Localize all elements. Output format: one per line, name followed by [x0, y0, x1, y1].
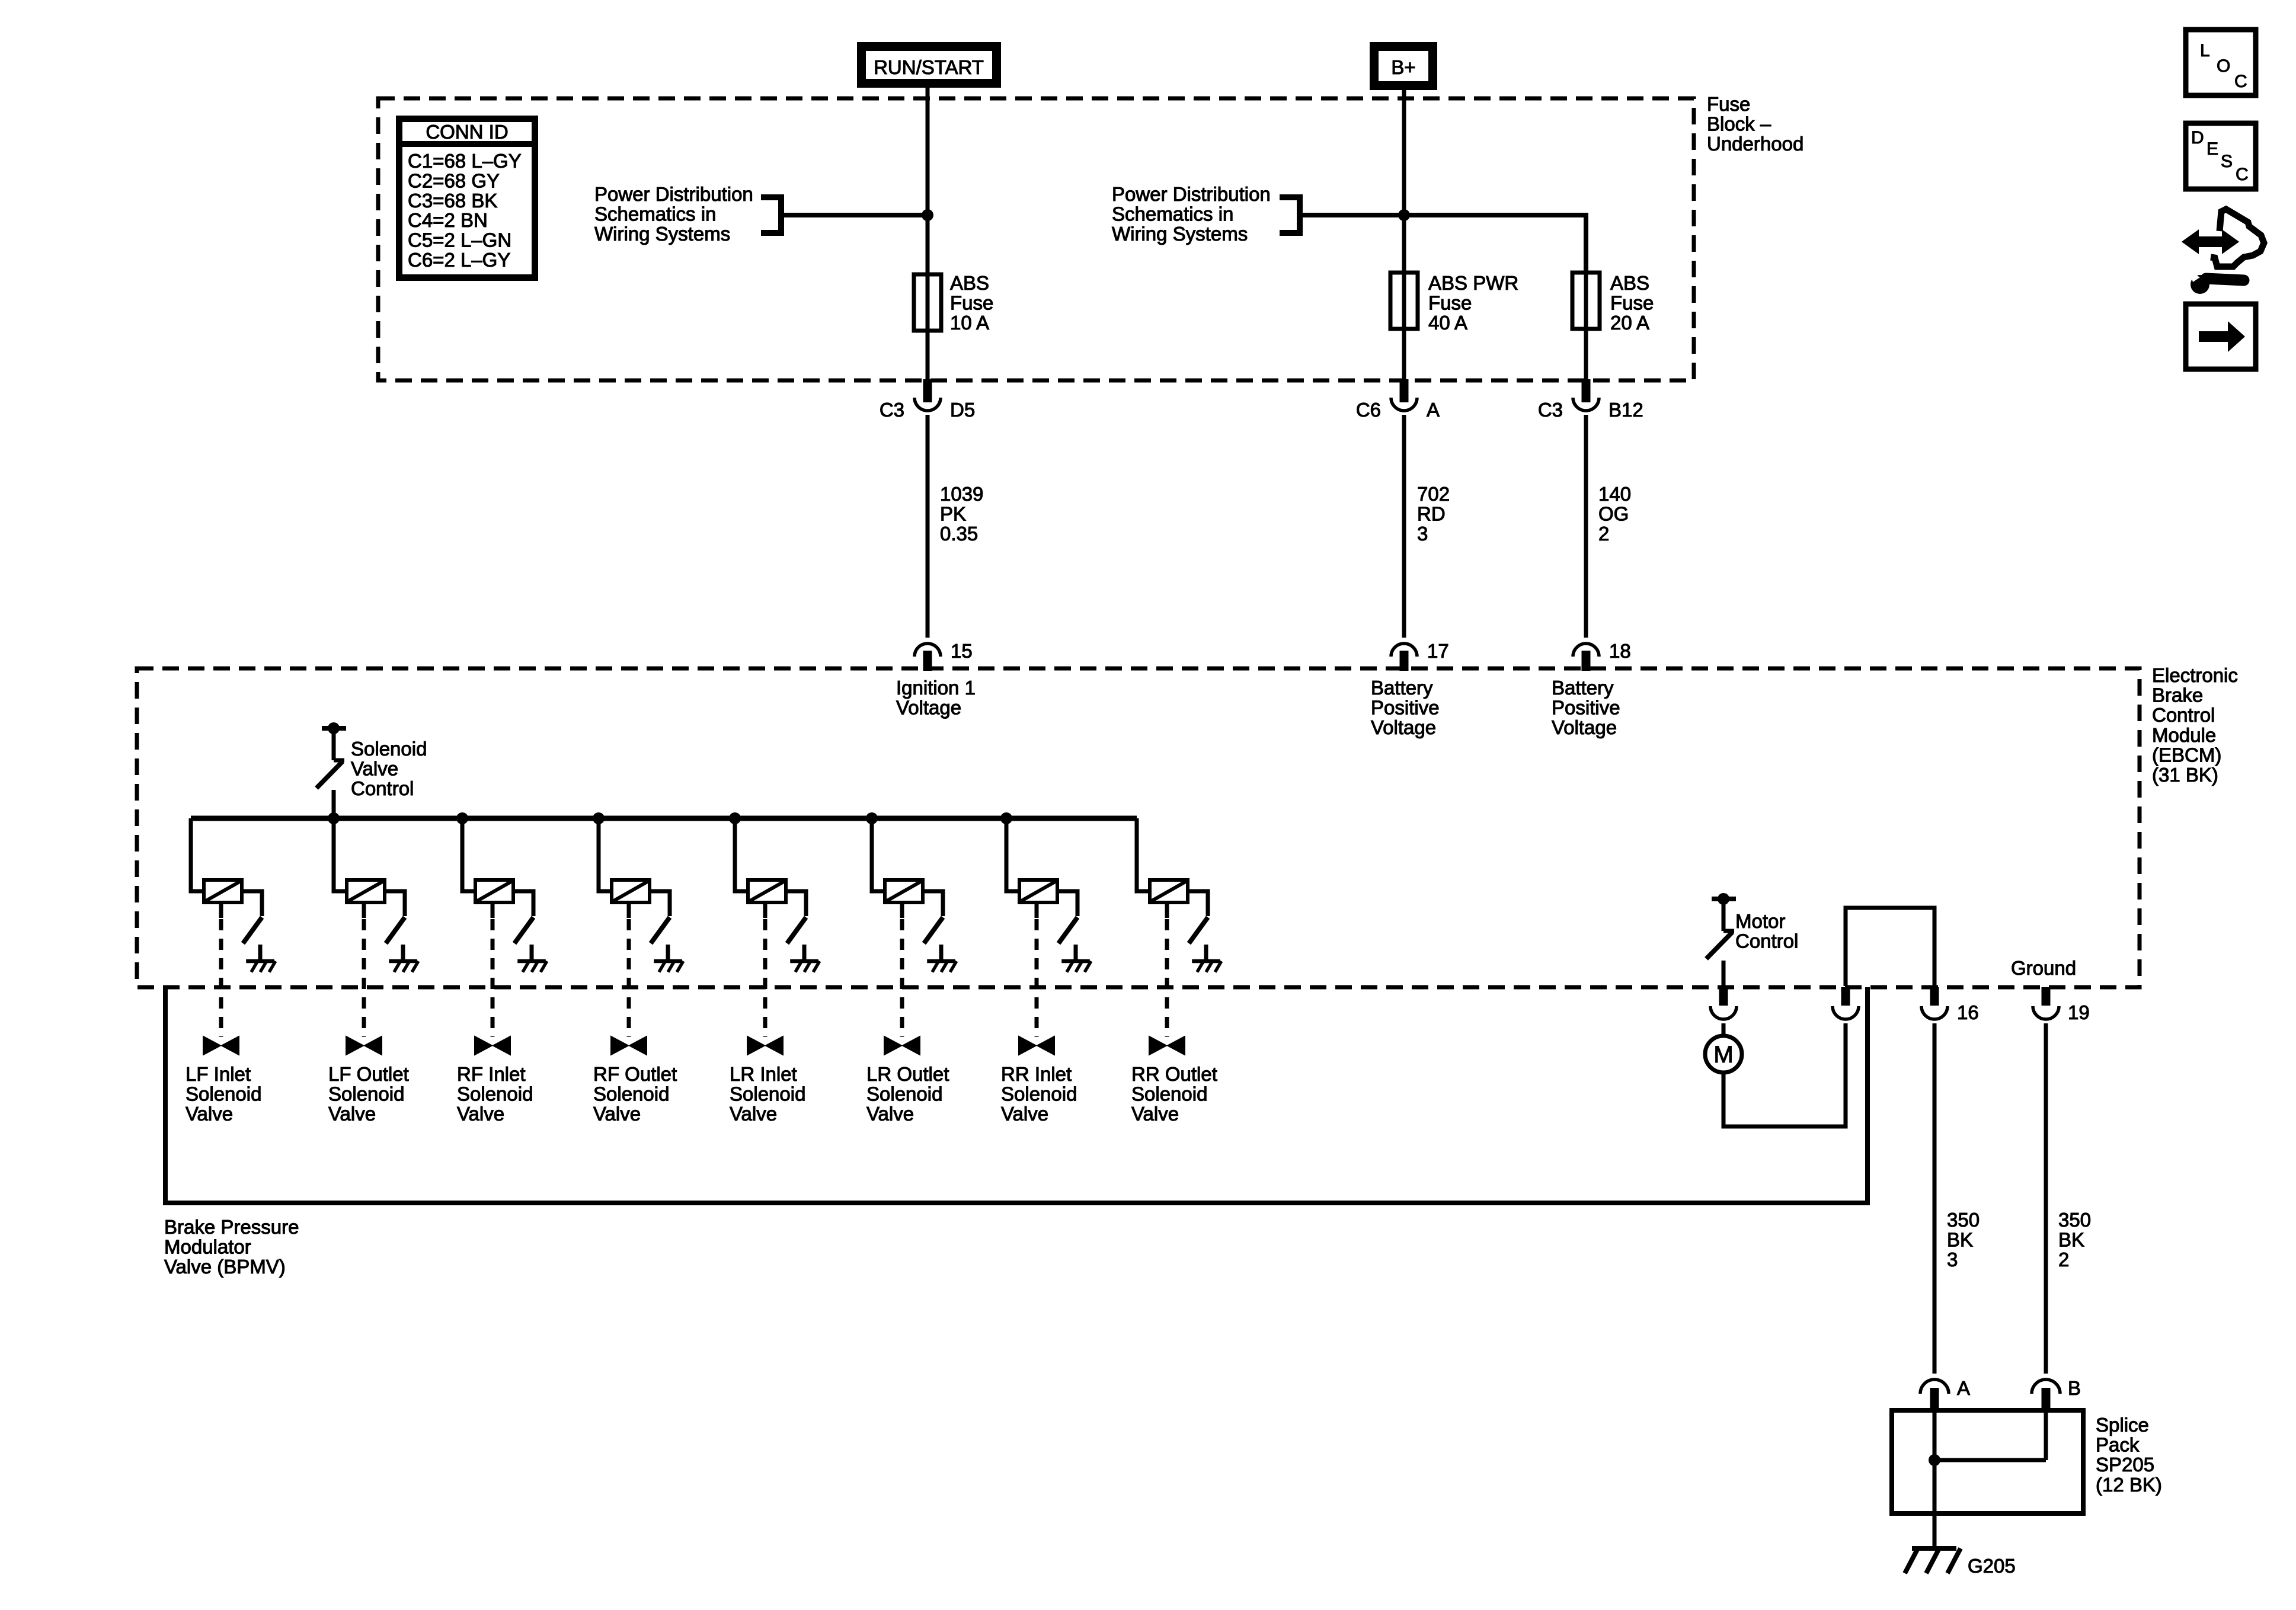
wire: BPMV case return	[1865, 987, 1870, 1203]
wire: branch from solenoid bus at x=1471	[872, 818, 885, 891]
svg-text:Solenoid: Solenoid	[351, 738, 427, 760]
svg-text:Solenoid: Solenoid	[1131, 1083, 1207, 1105]
svg-text:SP205: SP205	[2096, 1454, 2154, 1475]
svg-text:18: 18	[1609, 640, 1631, 662]
svg-text:140: 140	[1598, 483, 1631, 505]
connector pin 17 (EBCM input)	[1391, 644, 1417, 657]
svg-text:B12: B12	[1609, 399, 1643, 421]
svg-text:Control: Control	[2152, 704, 2215, 726]
wire 350 BK 2	[2044, 1023, 2048, 1374]
svg-text:Solenoid: Solenoid	[457, 1083, 533, 1105]
svg-text:PK: PK	[940, 503, 966, 525]
svg-text:C2=68 GY: C2=68 GY	[408, 169, 500, 191]
svg-text:ABS: ABS	[1610, 272, 1649, 294]
wire: coil output to contact	[385, 891, 405, 916]
svg-text:B+: B+	[1391, 56, 1415, 78]
connector pin 15 (EBCM input)	[914, 644, 941, 657]
wire: branch from solenoid bus at x=1010	[599, 818, 612, 891]
wire: coil pin dashed to valve	[763, 902, 768, 918]
svg-text:CONN ID: CONN ID	[426, 121, 508, 143]
wire: coil pin dashed to valve	[219, 902, 223, 918]
node junction on bus at x=1010	[593, 812, 605, 824]
wire: ground pin	[1204, 945, 1208, 961]
svg-text:Valve: Valve	[1001, 1103, 1048, 1125]
wire: ground pin	[666, 945, 670, 961]
wire 140 OG 2	[1584, 415, 1588, 638]
svg-text:C3: C3	[1538, 399, 1563, 421]
wire: coil output to contact	[1057, 891, 1077, 916]
valve symbol LR Outlet Solenoid Valve	[884, 1036, 920, 1055]
Brake Pressure Modulator Valve (BPMV) outline	[165, 987, 1868, 1203]
wire: 10A fuse to block edge	[926, 331, 930, 380]
icon DESC box	[2186, 123, 2256, 189]
svg-text:Schematics in: Schematics in	[1112, 203, 1233, 225]
svg-text:Ground: Ground	[2011, 957, 2076, 979]
wire: bracket across B+ feed to 20A fuse	[1300, 215, 1586, 273]
svg-text:Solenoid: Solenoid	[1001, 1083, 1077, 1105]
switch blade (driver contact)	[243, 917, 262, 943]
svg-text:Brake Pressure: Brake Pressure	[164, 1216, 299, 1238]
svg-text:C: C	[2234, 72, 2247, 91]
svg-text:350: 350	[2058, 1209, 2091, 1231]
svg-text:Underhood: Underhood	[1707, 133, 1803, 155]
CONN ID table	[399, 119, 535, 278]
ground (chassis) for LF Inlet driver	[246, 959, 274, 963]
wire: ground pin	[802, 945, 807, 961]
svg-text:2: 2	[2058, 1249, 2069, 1270]
svg-text:O: O	[2217, 56, 2230, 76]
wire: coil output to contact	[242, 891, 262, 916]
valve symbol RR Outlet Solenoid Valve	[1149, 1036, 1185, 1055]
fuse ABS Fuse 10 A	[914, 274, 941, 331]
switch Motor Control	[1712, 897, 1736, 901]
svg-text:C3=68 BK: C3=68 BK	[408, 190, 497, 212]
svg-text:C1=68 L–GY: C1=68 L–GY	[408, 150, 522, 172]
wire: branch from solenoid bus at x=563	[334, 818, 347, 891]
svg-text:A: A	[1427, 399, 1440, 421]
wire: coil output to contact	[650, 891, 670, 916]
svg-text:D5: D5	[950, 399, 975, 421]
svg-text:BK: BK	[2058, 1229, 2084, 1251]
svg-text:1039: 1039	[940, 483, 983, 505]
svg-text:Solenoid: Solenoid	[866, 1083, 942, 1105]
relay coil RR Inlet driver	[1019, 880, 1057, 902]
wire: branch from solenoid bus at x=780	[462, 818, 475, 891]
svg-text:(31 BK): (31 BK)	[2152, 764, 2218, 786]
svg-text:Block –: Block –	[1707, 113, 1771, 135]
connector C6 pin A (fuse block exit)	[1400, 379, 1409, 402]
node junction on bus at x=780	[456, 812, 468, 824]
wire: ground pin	[1074, 945, 1078, 961]
svg-text:C6=2 L–GY: C6=2 L–GY	[408, 249, 510, 271]
wire: branch from solenoid bus at x=1240	[735, 818, 748, 891]
svg-text:C: C	[2236, 165, 2249, 184]
svg-text:Fuse: Fuse	[1707, 93, 1750, 115]
svg-text:19: 19	[2068, 1001, 2090, 1023]
svg-text:Valve: Valve	[328, 1103, 376, 1125]
svg-text:Fuse: Fuse	[950, 292, 993, 314]
ground (chassis) for RR Inlet driver	[1061, 959, 1090, 963]
svg-text:Brake: Brake	[2152, 684, 2203, 706]
svg-text:20 A: 20 A	[1610, 312, 1649, 334]
wire: coil output to contact	[923, 891, 943, 916]
svg-text:RR Outlet: RR Outlet	[1131, 1063, 1217, 1085]
ground G205 (chassis)	[1912, 1546, 1956, 1551]
wire: coil pin dashed to valve	[900, 902, 904, 918]
splice pack SP205 box	[1892, 1410, 2083, 1513]
wire: internal link motor return to pin 16	[1846, 908, 1934, 986]
connector pin A (splice pack)	[1920, 1379, 1949, 1394]
ground (chassis) for LR Inlet driver	[790, 959, 818, 963]
svg-text:Solenoid: Solenoid	[593, 1083, 669, 1105]
svg-text:Fuse: Fuse	[1610, 292, 1654, 314]
wire: splice A through pack	[1933, 1408, 1937, 1548]
switch blade (driver contact)	[924, 917, 943, 943]
connector C3 pin B12 (fuse block exit)	[1582, 379, 1591, 402]
svg-text:Valve: Valve	[866, 1103, 914, 1125]
svg-text:Control: Control	[351, 777, 414, 799]
svg-text:E: E	[2207, 139, 2218, 159]
wire: ground pin	[258, 945, 263, 961]
ground (chassis) for RF Inlet driver	[517, 959, 546, 963]
svg-text:S: S	[2221, 152, 2233, 171]
svg-text:3: 3	[1417, 523, 1428, 545]
svg-text:Solenoid: Solenoid	[730, 1083, 805, 1105]
svg-text:Control: Control	[1735, 930, 1798, 952]
wire: RUN/START down to ABS fuse	[926, 88, 930, 274]
svg-text:Valve (BPMV): Valve (BPMV)	[164, 1256, 286, 1278]
wire: branch from solenoid bus at x=1918	[1137, 818, 1150, 891]
svg-text:Schematics in: Schematics in	[594, 203, 716, 225]
svg-text:RD: RD	[1417, 503, 1446, 525]
svg-text:C3: C3	[880, 399, 904, 421]
valve symbol LF Inlet Solenoid Valve	[203, 1036, 239, 1055]
relay coil LR Inlet driver	[748, 880, 786, 902]
svg-text:LR Outlet: LR Outlet	[866, 1063, 949, 1085]
svg-text:LF Inlet: LF Inlet	[186, 1063, 251, 1085]
svg-text:M: M	[1713, 1042, 1733, 1068]
ground (chassis) for LR Outlet driver	[927, 959, 955, 963]
node junction on bus at x=563	[328, 812, 340, 824]
wire: coil output to contact	[786, 891, 806, 916]
svg-text:Battery: Battery	[1371, 677, 1433, 699]
node junction on bus at x=1240	[729, 812, 741, 824]
Electronic Brake Control Module (EBCM) dashed enclosure	[137, 668, 2140, 987]
svg-text:15: 15	[951, 640, 973, 662]
node junction on bus at x=1698	[1000, 812, 1012, 824]
switch blade (driver contact)	[1189, 917, 1208, 943]
svg-text:ABS PWR: ABS PWR	[1428, 272, 1518, 294]
wire: coil output to contact	[1188, 891, 1208, 916]
svg-text:702: 702	[1417, 483, 1450, 505]
svg-text:L: L	[2200, 41, 2210, 60]
svg-text:Valve: Valve	[351, 758, 398, 780]
svg-text:Power Distribution: Power Distribution	[594, 183, 753, 205]
wire: solenoid driver bus	[191, 816, 1137, 821]
svg-text:Module: Module	[2152, 724, 2216, 746]
wire: 40A fuse to block edge	[1402, 329, 1406, 380]
fuse block underhood (dashed enclosure)	[378, 98, 1694, 380]
svg-text:Valve: Valve	[593, 1103, 641, 1125]
svg-text:OG: OG	[1598, 503, 1629, 525]
connector (motor return through EBCM case)	[1833, 1006, 1859, 1019]
node junction on B+ wire	[1398, 209, 1410, 221]
svg-text:RUN/START: RUN/START	[874, 56, 984, 78]
wire: branch from solenoid bus at x=322	[191, 818, 204, 891]
wire: coil pin dashed to valve	[491, 902, 495, 918]
icon vehicle direction + wrench	[2211, 209, 2264, 267]
svg-text:Voltage: Voltage	[1552, 716, 1617, 738]
svg-text:16: 16	[1957, 1001, 1979, 1023]
svg-text:Valve: Valve	[186, 1103, 233, 1125]
relay coil RF Inlet driver	[475, 880, 513, 902]
svg-text:B: B	[2068, 1377, 2081, 1399]
wire: motor return loop	[1723, 1023, 1846, 1126]
svg-text:G205: G205	[1968, 1555, 2016, 1577]
wire: coil pin dashed to valve	[362, 902, 366, 918]
connector (motor feed through EBCM case)	[1719, 987, 1728, 1006]
wire: coil output to contact	[513, 891, 533, 916]
icon LOC box	[2186, 30, 2256, 95]
valve symbol LR Inlet Solenoid Valve	[747, 1036, 783, 1055]
svg-text:Solenoid: Solenoid	[328, 1083, 404, 1105]
valve symbol LF Outlet Solenoid Valve	[346, 1036, 382, 1055]
svg-text:(EBCM): (EBCM)	[2152, 744, 2221, 766]
svg-text:A: A	[1957, 1377, 1970, 1399]
svg-text:RF Outlet: RF Outlet	[593, 1063, 677, 1085]
node splice junction	[1929, 1454, 1940, 1466]
connector C3 pin D5 (fuse block exit)	[923, 379, 932, 402]
icon next-section arrow box	[2186, 304, 2256, 369]
ground (chassis) for LF Outlet driver	[389, 959, 417, 963]
switch blade (driver contact)	[1059, 917, 1077, 943]
relay coil LF Inlet driver	[204, 880, 242, 902]
switch blade (driver contact)	[787, 917, 806, 943]
svg-text:Valve: Valve	[730, 1103, 777, 1125]
relay coil RR Outlet driver	[1150, 880, 1188, 902]
wire 350 BK 3	[1933, 1023, 1937, 1374]
svg-text:Electronic: Electronic	[2152, 664, 2238, 686]
switch blade (driver contact)	[651, 917, 670, 943]
svg-text:Power Distribution: Power Distribution	[1112, 183, 1271, 205]
svg-text:Splice: Splice	[2096, 1414, 2149, 1436]
svg-text:C4=2 BN: C4=2 BN	[408, 209, 488, 231]
svg-text:BK: BK	[1947, 1229, 1973, 1251]
valve symbol RF Inlet Solenoid Valve	[475, 1036, 510, 1055]
svg-text:RF Inlet: RF Inlet	[457, 1063, 526, 1085]
wire: 20A fuse to block edge	[1584, 329, 1588, 380]
switch Solenoid Valve Control	[322, 726, 346, 731]
svg-text:LR Inlet: LR Inlet	[730, 1063, 797, 1085]
wire: coil pin dashed to valve	[1035, 902, 1039, 918]
valve symbol RR Inlet Solenoid Valve	[1019, 1036, 1054, 1055]
connector pin B (splice pack)	[2032, 1379, 2060, 1394]
svg-text:Pack: Pack	[2096, 1434, 2140, 1456]
bracket symbol (left)	[761, 197, 781, 233]
svg-text:17: 17	[1427, 640, 1449, 662]
svg-text:Valve: Valve	[457, 1103, 504, 1125]
ground (chassis) for RF Outlet driver	[654, 959, 682, 963]
svg-text:ABS: ABS	[950, 272, 989, 294]
svg-text:Positive: Positive	[1371, 697, 1440, 719]
svg-text:Voltage: Voltage	[1371, 716, 1436, 738]
wire: splice link to B	[1934, 1458, 2046, 1462]
switch blade (driver contact)	[514, 917, 533, 943]
svg-text:Ignition 1: Ignition 1	[896, 677, 976, 699]
svg-text:Wiring Systems: Wiring Systems	[1112, 223, 1248, 245]
motor M (pump motor)	[1722, 1023, 1726, 1035]
svg-text:(12 BK): (12 BK)	[2096, 1474, 2162, 1496]
switch blade (driver contact)	[386, 917, 405, 943]
node junction on bus at x=1471	[866, 812, 878, 824]
relay coil LF Outlet driver	[347, 880, 385, 902]
svg-text:3: 3	[1947, 1249, 1958, 1270]
svg-text:0.35: 0.35	[940, 523, 978, 545]
wire: branch from solenoid bus at x=1698	[1006, 818, 1019, 891]
node junction on RUN/START wire	[922, 209, 933, 221]
svg-text:LF Outlet: LF Outlet	[328, 1063, 409, 1085]
svg-text:RR Inlet: RR Inlet	[1001, 1063, 1072, 1085]
relay coil LR Outlet driver	[885, 880, 923, 902]
svg-text:Wiring Systems: Wiring Systems	[594, 223, 730, 245]
wire: ground pin	[401, 945, 405, 961]
wire 702 RD 3	[1402, 415, 1406, 638]
valve symbol RF Outlet Solenoid Valve	[611, 1036, 647, 1055]
svg-text:40 A: 40 A	[1428, 312, 1467, 334]
svg-text:Modulator: Modulator	[164, 1236, 251, 1258]
wire: B+ down to ABS PWR fuse	[1402, 89, 1406, 273]
svg-text:Fuse: Fuse	[1428, 292, 1472, 314]
fuse ABS Fuse 20 A	[1572, 273, 1600, 329]
svg-text:2: 2	[1598, 523, 1609, 545]
fuse ABS PWR Fuse 40 A	[1390, 273, 1418, 329]
wire: coil pin dashed to valve	[1165, 902, 1169, 918]
svg-text:Solenoid: Solenoid	[186, 1083, 261, 1105]
wire: bracket to RUN/START feed	[781, 213, 928, 217]
connector pin 16 (EBCM ground output)	[1930, 987, 1939, 1006]
svg-text:Voltage: Voltage	[896, 697, 961, 719]
svg-text:Positive: Positive	[1552, 697, 1620, 719]
svg-text:Valve: Valve	[1131, 1103, 1179, 1125]
wire 1039 PK 0.35	[926, 415, 930, 638]
svg-text:10 A: 10 A	[950, 312, 989, 334]
svg-text:D: D	[2191, 128, 2204, 148]
power feed RUN/START	[862, 47, 997, 84]
bracket symbol (right)	[1280, 197, 1300, 233]
relay coil RF Outlet driver	[612, 880, 650, 902]
power feed B+	[1374, 47, 1433, 86]
wire: ground pin	[939, 945, 944, 961]
svg-text:Motor: Motor	[1735, 910, 1785, 932]
svg-text:C6: C6	[1356, 399, 1381, 421]
connector pin 19 (EBCM ground)	[2042, 987, 2051, 1006]
svg-text:350: 350	[1947, 1209, 1980, 1231]
ground (chassis) for RR Outlet driver	[1192, 959, 1220, 963]
connector pin 18 (EBCM input)	[1573, 644, 1599, 657]
svg-text:C5=2 L–GN: C5=2 L–GN	[408, 229, 511, 251]
svg-text:Battery: Battery	[1552, 677, 1614, 699]
wire: coil pin dashed to valve	[627, 902, 631, 918]
wire: ground pin	[530, 945, 534, 961]
